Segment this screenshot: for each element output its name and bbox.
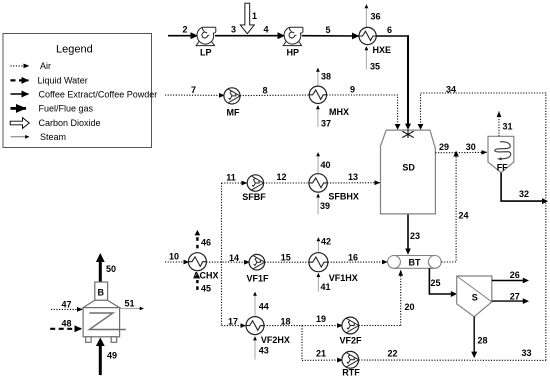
- svg-text:47: 47: [61, 300, 71, 310]
- svg-text:42: 42: [321, 237, 331, 247]
- svg-text:21: 21: [316, 349, 326, 359]
- svg-text:Air: Air: [40, 61, 51, 71]
- svg-text:25: 25: [430, 278, 440, 288]
- svg-text:7: 7: [191, 85, 196, 95]
- svg-text:16: 16: [348, 253, 358, 263]
- svg-text:20: 20: [404, 302, 414, 312]
- svg-text:Legend: Legend: [56, 44, 93, 56]
- svg-text:24: 24: [458, 211, 468, 221]
- svg-text:12: 12: [276, 172, 286, 182]
- svg-text:4: 4: [263, 25, 268, 35]
- svg-text:10: 10: [169, 252, 179, 262]
- svg-text:VF1HX: VF1HX: [329, 273, 358, 283]
- svg-text:SD: SD: [402, 162, 415, 172]
- svg-text:ACHX: ACHX: [193, 271, 219, 281]
- svg-text:28: 28: [477, 336, 487, 346]
- svg-text:27: 27: [510, 291, 520, 301]
- svg-text:50: 50: [106, 264, 116, 274]
- svg-text:VF2HX: VF2HX: [261, 335, 290, 345]
- svg-text:15: 15: [281, 253, 291, 263]
- svg-text:39: 39: [320, 201, 330, 211]
- svg-text:37: 37: [321, 119, 331, 129]
- svg-text:23: 23: [410, 231, 420, 241]
- svg-text:S: S: [472, 293, 478, 303]
- svg-text:33: 33: [521, 348, 531, 358]
- svg-text:32: 32: [519, 189, 529, 199]
- svg-text:HXE: HXE: [373, 45, 392, 55]
- svg-text:36: 36: [370, 12, 380, 22]
- svg-text:Steam: Steam: [40, 132, 66, 142]
- svg-text:19: 19: [316, 314, 326, 324]
- svg-text:5: 5: [325, 25, 330, 35]
- svg-text:18: 18: [280, 317, 290, 327]
- svg-text:SFBHX: SFBHX: [328, 191, 359, 201]
- svg-text:45: 45: [201, 284, 211, 294]
- svg-text:14: 14: [229, 253, 239, 263]
- svg-text:VF1F: VF1F: [246, 274, 269, 284]
- svg-text:Carbon Dioxide: Carbon Dioxide: [39, 118, 101, 128]
- svg-text:B: B: [98, 288, 105, 298]
- svg-text:44: 44: [259, 302, 269, 312]
- svg-text:Coffee Extract/Coffee Powder: Coffee Extract/Coffee Powder: [39, 89, 158, 99]
- svg-text:SFBF: SFBF: [242, 192, 266, 202]
- svg-text:Liquid Water: Liquid Water: [38, 76, 88, 86]
- svg-text:41: 41: [320, 282, 330, 292]
- svg-text:43: 43: [259, 346, 269, 356]
- svg-text:VF2F: VF2F: [339, 336, 362, 346]
- svg-text:17: 17: [228, 317, 238, 327]
- svg-text:35: 35: [370, 62, 380, 72]
- svg-text:3: 3: [231, 25, 236, 35]
- svg-text:BT: BT: [409, 258, 421, 268]
- svg-text:40: 40: [320, 160, 330, 170]
- svg-text:30: 30: [466, 142, 476, 152]
- svg-text:48: 48: [61, 318, 71, 328]
- svg-text:RTF: RTF: [342, 367, 360, 377]
- svg-text:49: 49: [107, 351, 117, 361]
- svg-text:MHX: MHX: [329, 107, 349, 117]
- svg-text:38: 38: [321, 72, 331, 82]
- svg-text:Fuel/Flue gas: Fuel/Flue gas: [39, 104, 94, 114]
- svg-text:LP: LP: [200, 47, 212, 57]
- svg-text:26: 26: [510, 270, 520, 280]
- svg-text:46: 46: [201, 238, 211, 248]
- svg-text:51: 51: [124, 298, 134, 308]
- svg-text:8: 8: [262, 86, 267, 96]
- svg-text:34: 34: [446, 85, 456, 95]
- svg-text:31: 31: [502, 122, 512, 132]
- svg-text:1: 1: [252, 11, 257, 21]
- svg-text:HP: HP: [287, 47, 300, 57]
- svg-text:FF: FF: [497, 163, 508, 173]
- svg-text:11: 11: [226, 173, 236, 183]
- svg-text:22: 22: [387, 349, 397, 359]
- svg-text:6: 6: [387, 25, 392, 35]
- svg-text:9: 9: [350, 85, 355, 95]
- svg-text:MF: MF: [227, 108, 240, 118]
- svg-text:13: 13: [348, 172, 358, 182]
- svg-text:2: 2: [182, 25, 187, 35]
- svg-text:29: 29: [439, 142, 449, 152]
